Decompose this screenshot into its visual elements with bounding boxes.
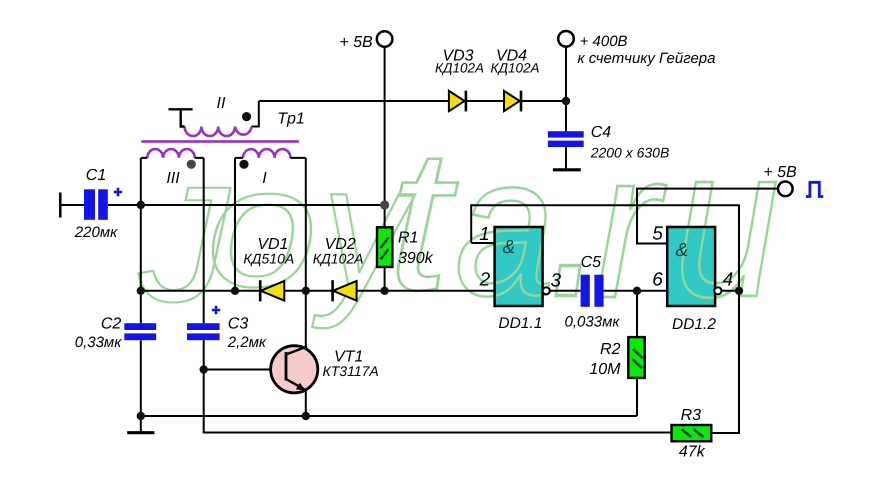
svg-text:390k: 390k: [398, 250, 434, 267]
svg-text:C1: C1: [86, 167, 106, 184]
svg-text:o: o: [206, 132, 317, 323]
svg-text:КД102А: КД102А: [435, 61, 484, 76]
svg-text:&: &: [675, 240, 688, 261]
svg-text:DD1.1: DD1.1: [498, 315, 542, 332]
wire top rail to VD3 VD4: [259, 100, 566, 102]
diode VD2: [333, 280, 357, 301]
winding I connector stubs: [235, 157, 306, 159]
resistor R2: [628, 337, 644, 378]
node C1-III junction: [137, 201, 145, 209]
svg-text:3: 3: [551, 271, 562, 292]
node rail R1: [380, 287, 388, 295]
pin 3 inversion bubble: [543, 287, 550, 294]
svg-text:+ 5В: + 5В: [339, 34, 373, 51]
wire R2 top lead: [636, 291, 638, 337]
wire winding III left vertical: [140, 158, 142, 291]
wire ground rail: [141, 415, 637, 417]
node VD3 VD4 C4 junction: [562, 97, 570, 105]
node C5 R2 pin6 junction: [633, 287, 641, 295]
svg-text:II: II: [217, 95, 226, 112]
wire R1 bottom lead: [384, 267, 386, 291]
svg-text:C2: C2: [101, 316, 122, 333]
svg-text:6: 6: [652, 270, 663, 291]
svg-text:2200 x 630В: 2200 x 630В: [590, 145, 670, 161]
node rail left: [137, 287, 145, 295]
svg-text:КД102А: КД102А: [313, 251, 364, 267]
wire pin3 to C5: [550, 290, 581, 292]
diode VD4: [504, 91, 521, 112]
wire C2 bottom and ground lead: [140, 340, 142, 431]
wire main rail y=291: [141, 290, 495, 292]
wire pin1 horizontal: [471, 242, 494, 244]
wire R2 bottom lead: [636, 378, 638, 416]
capacitor C1: [84, 189, 108, 220]
node dot winding I: [239, 160, 248, 169]
svg-text:Tp1: Tp1: [277, 111, 305, 128]
svg-text:КД510А: КД510А: [243, 251, 294, 267]
wire winding II step up: [252, 101, 259, 127]
terminal +400V: [558, 31, 574, 47]
node +5V R1 junction: [380, 200, 389, 209]
wire winding I left vertical: [234, 158, 236, 291]
terminal +5V left: [377, 31, 393, 47]
wire C5 to pin6: [604, 290, 668, 292]
svg-text:4: 4: [723, 270, 734, 291]
svg-text:&: &: [502, 237, 515, 258]
wire C3 bottom to R3: [204, 340, 672, 432]
svg-text:+ 5В: + 5В: [763, 164, 797, 181]
svg-text:C4: C4: [591, 124, 612, 141]
node ground emitter: [302, 412, 310, 420]
transformer winding III: [147, 149, 194, 158]
svg-text:0,033мк: 0,033мк: [565, 314, 621, 331]
wire C2 top lead: [140, 291, 142, 323]
wire C4 bottom lead: [565, 147, 567, 170]
watermark Joyta.ru: [138, 44, 779, 356]
svg-text:КТ3117А: КТ3117А: [323, 363, 379, 379]
DD1.2 box fill: [667, 227, 715, 306]
IC DD1.2 border: [667, 227, 715, 306]
svg-text:t: t: [388, 108, 458, 332]
svg-text:2,2мк: 2,2мк: [227, 334, 267, 351]
svg-text:47k: 47k: [679, 444, 706, 461]
svg-text:10M: 10M: [589, 361, 621, 378]
node rail winding I left: [231, 287, 239, 295]
svg-text:5: 5: [652, 224, 663, 245]
svg-text:1: 1: [479, 224, 490, 245]
wire pin5 and output: [637, 189, 778, 244]
node base junction: [200, 365, 208, 373]
wire C1 left lead: [59, 204, 84, 206]
svg-text:к счетчику Гейгера: к счетчику Гейгера: [578, 50, 716, 67]
terminal output +5V: [778, 182, 793, 197]
wire emitter vertical: [305, 391, 307, 416]
winding II left antenna symbol: [169, 109, 193, 126]
svg-text:DD1.2: DD1.2: [672, 316, 716, 333]
diode VD3: [449, 91, 466, 112]
capacitor C2: [124, 323, 156, 340]
svg-text:R3: R3: [681, 407, 702, 424]
wire C1 to +5V column: [108, 204, 385, 206]
node dot winding II: [242, 112, 251, 121]
svg-text:КД102А: КД102А: [491, 61, 540, 76]
capacitor C5: [581, 275, 604, 307]
svg-text:I: I: [262, 170, 267, 187]
resistor R1: [377, 227, 392, 267]
resistor R3: [672, 425, 712, 441]
node ground C2: [137, 412, 145, 420]
node rail collector: [302, 287, 310, 295]
svg-text:220мк: 220мк: [74, 224, 118, 241]
svg-text:C5: C5: [581, 254, 602, 271]
capacitor C4: [548, 131, 584, 147]
transformer winding II: [147, 127, 290, 158]
DD1.1 box fill: [495, 227, 543, 306]
wire winding I right vertical collector: [305, 158, 307, 347]
svg-text:C3: C3: [228, 316, 249, 333]
svg-text:R2: R2: [600, 341, 621, 358]
pulse symbol: [806, 182, 823, 196]
diode VD1: [260, 280, 284, 301]
node pin4 R3 junction: [735, 287, 743, 295]
svg-text:+ 400В: + 400В: [580, 33, 628, 50]
svg-text:2: 2: [479, 270, 491, 291]
ground C4: [553, 168, 581, 171]
svg-text:0,33мк: 0,33мк: [75, 334, 122, 351]
svg-text:III: III: [166, 170, 180, 187]
wire +5V vertical: [384, 47, 386, 228]
wire +400V vertical: [565, 47, 567, 131]
ground left: [127, 431, 154, 434]
transistor VT1: [271, 346, 318, 393]
IC DD1.1 border: [495, 227, 543, 306]
wire pin4: [721, 290, 739, 292]
C1 plus sign: [114, 188, 122, 196]
svg-text:R1: R1: [398, 230, 418, 247]
transformer winding I: [243, 149, 290, 158]
wire feedback pin1 to pin4: [471, 205, 739, 433]
wire winding III right vertical to C3: [203, 158, 205, 323]
pin 4 inversion bubble: [714, 287, 721, 294]
capacitor C3: [187, 323, 220, 340]
node dot winding III: [187, 160, 196, 169]
transformer Tp1 core: [141, 140, 298, 143]
winding III connector stubs: [141, 157, 204, 159]
wire base of VT1: [204, 369, 271, 371]
C3 plus sign: [212, 306, 220, 314]
wire C1 left stub: [59, 193, 62, 218]
